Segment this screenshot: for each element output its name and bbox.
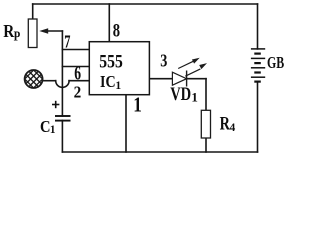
LED VD1 triangle — [172, 72, 186, 85]
op-amp ... IC1 555 timer box U1 — [89, 42, 149, 95]
wire battery top riser — [257, 4, 259, 49]
svg-text:1: 1 — [50, 124, 56, 136]
LED VD1 cathode bar — [186, 71, 188, 87]
battery GB long plate 4 — [251, 76, 265, 78]
wire pin6 — [62, 66, 89, 68]
wire top rail — [33, 3, 258, 5]
wire microphone to hop — [43, 80, 56, 82]
wire bottom rail — [62, 151, 257, 153]
svg-text:555: 555 — [99, 52, 123, 73]
battery GB long plate 1 — [251, 48, 265, 50]
battery GB short plate 4 — [254, 80, 260, 82]
battery GB short plate 1 — [254, 52, 260, 54]
wire battery bottom riser — [257, 82, 259, 152]
capacitor C1 plates — [55, 116, 71, 121]
wire R4 top riser — [205, 79, 207, 111]
svg-text:4: 4 — [230, 122, 236, 134]
svg-text:IC: IC — [100, 72, 116, 91]
svg-text:8: 8 — [113, 21, 121, 42]
wire LED to corner — [187, 78, 206, 80]
svg-text:VD: VD — [170, 84, 191, 105]
wire R4 bottom stub — [205, 138, 207, 152]
wire potentiometer top riser — [32, 4, 34, 19]
svg-text:1: 1 — [191, 90, 198, 105]
svg-text:GB: GB — [267, 53, 284, 72]
svg-text:1: 1 — [133, 93, 142, 117]
wire pin8 riser — [108, 4, 110, 42]
wire pin7 — [62, 49, 89, 51]
svg-text:6: 6 — [74, 63, 81, 85]
potentiometer RP body — [28, 19, 37, 48]
LED VD1 emission arrow 1 — [178, 58, 200, 69]
wire wiper to rail — [48, 30, 63, 32]
LED VD1 emission arrow 2 — [185, 63, 207, 76]
wire hop arc — [56, 81, 69, 88]
battery GB long plate 3 — [251, 67, 265, 69]
wire pin1 riser — [125, 95, 127, 152]
svg-text:1: 1 — [115, 79, 121, 92]
battery GB short plate 2 — [254, 62, 260, 64]
svg-text:P: P — [14, 29, 21, 44]
svg-text:7: 7 — [64, 31, 70, 51]
svg-text:3: 3 — [160, 51, 167, 71]
wire C1 lower lead — [61, 121, 63, 153]
capacitor C1 plus sign — [52, 101, 59, 108]
wire left rail down — [61, 31, 63, 116]
battery GB short plate 3 — [254, 71, 260, 73]
svg-text:2: 2 — [74, 83, 82, 102]
wire pin2 — [69, 80, 89, 82]
wire pin3 — [149, 78, 172, 80]
potentiometer RP wiper arrow head — [39, 28, 48, 34]
battery GB long plate 2 — [251, 57, 265, 59]
resistor R4 body — [201, 110, 210, 138]
